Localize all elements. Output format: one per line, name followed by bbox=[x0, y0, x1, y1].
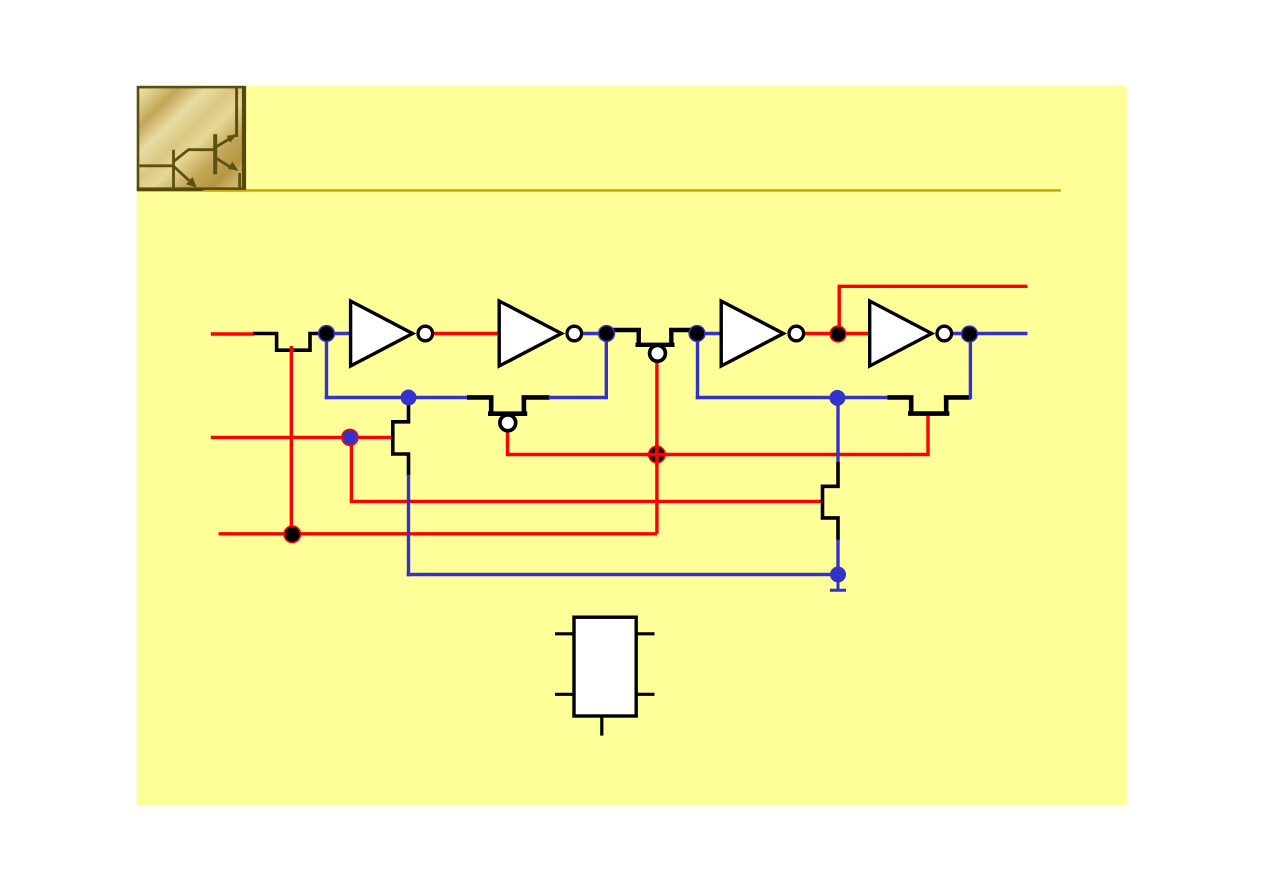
pass gate P1 bubble bbox=[500, 415, 516, 431]
wire: blue vertical from jog down to bus3 bbox=[407, 475, 410, 577]
logo transistor Q2 bbox=[215, 88, 239, 188]
logo transistor Q1 bbox=[140, 150, 215, 188]
header rule bbox=[137, 189, 1061, 191]
ground tick below node K bbox=[830, 575, 846, 591]
pass gate P3 frame (black notch on bus2) bbox=[888, 395, 971, 413]
slide background bbox=[137, 86, 1127, 806]
wire: blue vertical node B down to bus1 bbox=[605, 335, 608, 399]
pass gate P1 frame (black notch on bus1) bbox=[467, 395, 550, 413]
inverter U2 bbox=[499, 301, 581, 366]
wire: red vertical from P2 bubble through node J to red bus row3 bbox=[655, 362, 658, 534]
inverter U4 bbox=[870, 301, 952, 366]
wire: blue from node G down (upper part) bbox=[836, 399, 839, 464]
node D (red junction at U4 input) bbox=[830, 326, 846, 342]
wire: red U3 output to node D to U4 input bbox=[797, 332, 871, 335]
node F2 (blue dot on red row2) bbox=[342, 429, 358, 445]
wire: blue node A to U1 input bbox=[323, 332, 351, 335]
logo Q2 emitter arrowhead bbox=[228, 162, 239, 171]
pass gate P2 bubble bbox=[650, 345, 666, 361]
U5 pin 5 (bottom) bbox=[600, 716, 603, 736]
U5 pin 2 (left bottom) bbox=[555, 693, 574, 696]
logo Q1 emitter arrowhead bbox=[186, 177, 197, 188]
wire: red row2 (y=437) bbox=[211, 436, 393, 439]
wire: blue from S-jog down to node K bbox=[836, 540, 839, 575]
gold rule sliver under logo bbox=[203, 190, 246, 192]
wire: blue vertical node C down to bus2 bbox=[696, 335, 699, 399]
wire: blue node C to U3 input bbox=[697, 332, 722, 335]
wire: red bus row3 (y=534) bbox=[219, 532, 657, 535]
wire: red from node F2 down then right (y=501) bbox=[351, 439, 822, 501]
wire: red U1 output to U2 input bbox=[425, 332, 500, 335]
inverter U3 bbox=[721, 301, 803, 366]
IC U5 package bbox=[555, 617, 655, 735]
wire: blue vertical node E down to bus2 bbox=[969, 335, 972, 399]
pass gate P2 frame (black notch between node B and C) bbox=[607, 328, 697, 345]
node B bbox=[599, 326, 615, 342]
red cross-over wires redrawn on node J bbox=[646, 443, 668, 466]
wire: black input jog to node A bbox=[253, 334, 319, 351]
node C bbox=[689, 326, 705, 342]
wire: red feedback top (node D up and right) bbox=[839, 286, 1027, 334]
logo Q2 collector arrowhead bbox=[227, 135, 237, 143]
node A bbox=[319, 326, 335, 342]
wire: blue bus2 left segment bbox=[696, 396, 889, 399]
wire: blue bus1 right segment bbox=[549, 396, 607, 399]
node G (blue dot on bus2) bbox=[829, 390, 845, 406]
wire: black jog from node F down (crossing row2) bbox=[393, 400, 409, 476]
wire: blue U4 output to node E and output bbox=[953, 332, 1028, 335]
node K (blue dot on bus3) bbox=[830, 567, 846, 583]
node J junction (red cross-over dot, drawn under red wires) bbox=[649, 446, 665, 462]
wire: blue vertical node A down to bus1 bbox=[325, 335, 328, 399]
node H (black dot on red bus row3) bbox=[284, 526, 300, 542]
node E (output junction) bbox=[962, 326, 978, 342]
U5 pin 3 (right top) bbox=[636, 632, 654, 635]
U5 pin 4 (right bottom) bbox=[636, 693, 654, 696]
U5 pin 1 (left top) bbox=[555, 632, 574, 635]
wire: blue U2 output to node B bbox=[583, 332, 607, 335]
wire: black S-jog on node G vertical (crossing y=501 red) bbox=[823, 462, 839, 541]
wire: blue bus3 (y=574.5) to node K bbox=[407, 573, 838, 576]
wire: red vertical from input jog down to node H bbox=[290, 346, 293, 534]
wire: red input (left, row 1) bbox=[211, 332, 254, 335]
wire: red control from P1 bubble down, right, up to P3 (y=454) bbox=[508, 412, 929, 455]
inverter U1 bbox=[351, 301, 433, 366]
node F (blue dot on bus1) bbox=[401, 390, 417, 406]
wire: blue bus1 left segment bbox=[325, 396, 468, 399]
logo emblem box (Darlington pair) bbox=[137, 86, 246, 191]
